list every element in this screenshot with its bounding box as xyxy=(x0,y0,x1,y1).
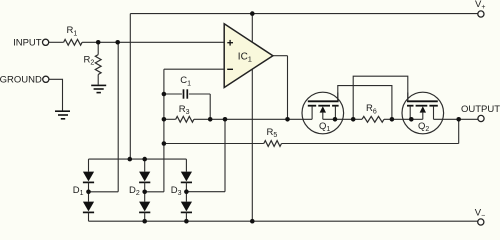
resistor R1 (input series resistor) xyxy=(64,39,83,45)
wire: op-amp inverting input stub xyxy=(164,68,225,70)
node: V+ feed / bias rail xyxy=(128,157,133,162)
diode D1b xyxy=(83,202,94,212)
node: D2 midpoint xyxy=(142,190,147,195)
wire: D2 mid tap horizontal xyxy=(145,191,164,193)
node: input/D1-bias junction xyxy=(115,40,120,45)
svg-text:R6: R6 xyxy=(366,103,377,115)
transistor Q1 (n-channel MOSFET, circle package) xyxy=(302,92,344,134)
svg-text:Q1: Q1 xyxy=(319,121,330,133)
svg-text:D2: D2 xyxy=(129,185,140,197)
wire: op-amp power vertical V+ to V- rail (passes behind IC1) xyxy=(251,14,253,222)
wire: Q1 gate cross-coupling loop to node right of R6 xyxy=(338,86,392,120)
ground symbol (below R2) xyxy=(91,84,106,86)
node: op-amp V- supply / rail xyxy=(250,219,255,224)
svg-text:R1: R1 xyxy=(67,25,78,37)
capacitor C1 (feedback, parallel R3) xyxy=(183,89,185,98)
svg-text:C1: C1 xyxy=(180,75,191,87)
node: D2 bottom / V- rail xyxy=(142,219,147,224)
resistor R5 (output feedback) xyxy=(264,141,282,147)
wire: D3 mid tap horizontal xyxy=(186,191,225,193)
op-amp - input marker xyxy=(227,68,233,70)
wire: D3 tap vertical from feedback line xyxy=(224,119,226,191)
svg-text:INPUT: INPUT xyxy=(13,38,42,49)
svg-text:GROUND: GROUND xyxy=(0,75,42,86)
wire: Q2 gate cross-coupling loop to node left of R6 xyxy=(353,76,408,119)
wire: op-amp output vertical down to drain line xyxy=(287,56,289,120)
svg-text:OUTPUT: OUTPUT xyxy=(461,104,500,115)
diode D1a xyxy=(83,172,94,182)
node: C1/R3 right xyxy=(208,117,213,122)
wire: C1 right vertical down to feedback line xyxy=(209,94,211,119)
node: D2 top xyxy=(142,157,147,162)
wire: GROUND terminal lead xyxy=(49,79,63,110)
node: output / R5 junction xyxy=(456,117,461,122)
V+ terminal xyxy=(478,11,484,17)
diode string D1: top stub xyxy=(88,159,90,172)
wire: D1 mid tap horizontal xyxy=(89,191,119,193)
node: Q1 source xyxy=(333,117,338,122)
resistor R3 (feedback) xyxy=(176,116,194,122)
svg-text:Q2: Q2 xyxy=(418,121,429,133)
wire: diode bias top rail xyxy=(89,158,187,160)
svg-text:D3: D3 xyxy=(171,185,182,197)
wire: op-amp output stub from apex xyxy=(273,55,288,57)
diode string D3: top stub xyxy=(185,159,187,172)
wire: input line from INPUT terminal to op-amp + input xyxy=(49,41,64,43)
svg-text:R5: R5 xyxy=(267,127,278,139)
node: R3 left xyxy=(162,117,167,122)
node: R5 left xyxy=(162,141,167,146)
wire: Q2 drain to OUTPUT terminal xyxy=(434,118,478,120)
node: D3 midpoint xyxy=(184,189,189,194)
wire: R6 right to Q2 arrow stem xyxy=(384,118,423,120)
wire: drain line Q1 source to R6 xyxy=(323,118,362,120)
node: D1 midpoint xyxy=(86,190,91,195)
transistor Q2 (p-channel MOSFET, circle package, mirrored) xyxy=(402,92,444,134)
GROUND terminal xyxy=(43,76,49,82)
diode D2a xyxy=(139,172,150,182)
wire: output node vertical down to R5 line xyxy=(458,119,460,143)
wire: V+ top rail xyxy=(130,13,478,15)
V- terminal xyxy=(478,219,484,225)
wire: V- bottom rail xyxy=(89,220,478,222)
OUTPUT terminal xyxy=(478,115,484,121)
resistor R6 (between Q1 and Q2) xyxy=(362,116,384,122)
node: Q1 gate / R6 right xyxy=(390,117,395,122)
node: D3 bottom / V- rail xyxy=(184,219,189,224)
wire: inverting-node vertical (C1/R3/R5 node down to D2 mid tap) xyxy=(163,69,165,192)
ground symbol (GROUND terminal) xyxy=(55,110,70,112)
svg-text:D1: D1 xyxy=(73,185,84,197)
diode string D2: top stub xyxy=(144,159,146,172)
svg-text:R2: R2 xyxy=(84,54,95,66)
resistor R2 (input to ground) xyxy=(97,42,99,54)
node: V+ rail / op-amp supply xyxy=(250,11,255,16)
INPUT terminal xyxy=(43,39,49,45)
node: D3 tap top xyxy=(223,117,228,122)
svg-text:R3: R3 xyxy=(179,104,190,116)
diode D2b xyxy=(139,202,150,212)
wire: C1 top branch xyxy=(164,93,182,95)
diode D3a xyxy=(181,172,192,182)
wire: R5 feedback line from inverting node xyxy=(164,143,264,145)
node: Q2 source xyxy=(409,117,414,122)
node: Q2 gate / R6 left xyxy=(351,117,356,122)
node: op-amp output to Q1 drain xyxy=(285,117,290,122)
svg-text:V−: V− xyxy=(475,208,485,220)
node: R1/R2 junction xyxy=(96,40,101,45)
op-amp + input marker xyxy=(227,42,233,44)
node: C1 left xyxy=(162,92,167,97)
diode D3b xyxy=(181,202,192,212)
wire: feedback line y=119 from inverting node to Q1 xyxy=(164,118,176,120)
svg-text:V+: V+ xyxy=(475,0,485,11)
wire: input node vertical down to D1 mid tap xyxy=(117,42,119,192)
wire: V+ feed vertical (top rail down to diode bias rail) xyxy=(129,14,131,160)
op-amp IC1 triangle xyxy=(224,24,273,88)
